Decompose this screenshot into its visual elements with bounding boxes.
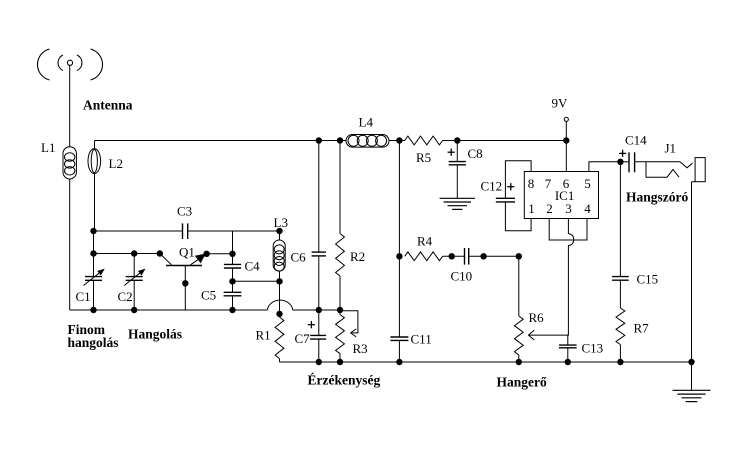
label Hangszoro — [626, 190, 688, 205]
capacitor C3 — [177, 204, 192, 240]
svg-text:Hangolás: Hangolás — [128, 327, 182, 342]
ground — [440, 198, 476, 209]
wire C3 bus to C4 — [232, 231, 234, 264]
node R3 bottom — [337, 359, 343, 365]
wire Q1 emitter to C4 node — [207, 253, 233, 255]
wire pin 1 loop — [505, 202, 531, 231]
wire C3 bus left — [94, 230, 183, 232]
inductor L4 — [346, 115, 389, 148]
capacitor C8 — [448, 141, 483, 165]
wire main bottom rail — [280, 361, 692, 363]
node C7 bottom — [316, 359, 322, 365]
resistor R1 — [256, 317, 284, 359]
node Q1 collector junction — [157, 250, 163, 256]
node C2 bottom — [131, 307, 137, 313]
capacitor C12 — [481, 179, 516, 202]
node L3 top — [276, 228, 282, 234]
svg-text:hangolás: hangolás — [68, 335, 119, 350]
svg-text:C3: C3 — [177, 204, 192, 219]
inductor L1 — [41, 140, 76, 179]
node C10 right — [480, 253, 486, 259]
label Finom hangolas — [68, 322, 119, 350]
node R6 bottom — [516, 359, 522, 365]
svg-text:4: 4 — [584, 201, 591, 216]
label Antenna — [83, 98, 133, 113]
svg-text:R3: R3 — [353, 341, 368, 356]
wire pin 2 to pin 4 — [549, 219, 587, 241]
wire C2 branch — [133, 254, 135, 277]
svg-text:C1: C1 — [76, 289, 91, 304]
wire L3 to R1 — [279, 271, 281, 317]
wire C6 to C7 — [318, 256, 320, 335]
wire top rail — [95, 140, 347, 142]
svg-text:C11: C11 — [411, 332, 432, 347]
node C2 top — [131, 250, 137, 256]
node ground junction — [688, 359, 694, 365]
svg-text:C12: C12 — [481, 179, 503, 194]
resistor R7 — [616, 308, 649, 345]
svg-text:5: 5 — [584, 176, 591, 191]
node 9V rail junction — [563, 137, 569, 143]
wire C15 to R7 — [619, 280, 621, 308]
svg-text:7: 7 — [545, 176, 552, 191]
node C4 bottom junction — [229, 278, 235, 284]
svg-text:J1: J1 — [665, 141, 677, 156]
capacitor C11 — [390, 332, 431, 347]
wire pin 8 loop — [505, 161, 531, 199]
wire R2 branch — [339, 141, 341, 234]
svg-text:C13: C13 — [582, 341, 604, 356]
wire tuning bus — [94, 253, 160, 255]
inductor L2 — [88, 149, 123, 174]
svg-text:C6: C6 — [291, 250, 307, 265]
resistor R4 — [405, 234, 443, 261]
svg-text:C7: C7 — [295, 331, 311, 346]
svg-text:L4: L4 — [359, 115, 374, 130]
wire R1 to rail — [279, 359, 281, 362]
svg-text:6: 6 — [563, 176, 570, 191]
node C6 top rail junction — [316, 137, 322, 143]
node R6 corner — [516, 253, 522, 259]
resistor R2 — [336, 234, 366, 277]
node R2 top rail junction — [337, 137, 343, 143]
svg-text:Hangerő: Hangerő — [497, 375, 547, 390]
wire R2 to node — [339, 276, 341, 310]
wire node to C14 — [620, 161, 629, 163]
wire C3 bus right — [188, 230, 280, 232]
svg-text:C14: C14 — [625, 133, 647, 148]
transistor Q1 — [160, 245, 207, 266]
wire L1 bottom to rail — [69, 179, 71, 310]
wire link to L3 bottom — [233, 280, 280, 282]
inductor L3 — [273, 215, 288, 271]
capacitor C13 — [559, 341, 603, 356]
wire pin 5 to C14 node — [589, 162, 621, 172]
capacitor C7 — [295, 321, 327, 346]
node Q1 emitter junction — [203, 251, 209, 257]
svg-text:2: 2 — [546, 201, 553, 216]
wire hop over R1 line — [267, 300, 292, 310]
node R4 junction — [396, 253, 402, 259]
svg-text:C4: C4 — [245, 259, 261, 274]
node C8 junction — [454, 137, 460, 143]
svg-text:Q1: Q1 — [179, 245, 195, 260]
wire R6 branch — [518, 256, 520, 316]
wire C7 to rail — [318, 339, 320, 362]
wire C14 node to C15 — [619, 162, 621, 277]
node L2 line / C3 bus — [90, 228, 96, 234]
svg-text:Antenna: Antenna — [83, 98, 133, 113]
resistor R6 — [514, 310, 544, 355]
wire L3 top stub — [279, 231, 281, 240]
wire C4 to C5 node — [232, 268, 234, 292]
svg-text:R7: R7 — [634, 321, 650, 336]
svg-text:C5: C5 — [201, 288, 216, 303]
label Hangolas — [128, 327, 182, 342]
svg-text:9V: 9V — [552, 96, 569, 111]
wire antenna lead — [69, 66, 71, 147]
svg-text:R4: R4 — [417, 234, 433, 249]
label Erzekenyseg — [308, 373, 381, 388]
node C11 bottom — [396, 359, 402, 365]
wire R3 to rail — [339, 354, 341, 362]
wire J1 to rail — [691, 182, 693, 362]
svg-text:C15: C15 — [637, 272, 659, 287]
ground — [673, 390, 711, 401]
op-amp IC1 — [524, 172, 598, 219]
wire C5 to rail — [232, 296, 234, 310]
node C6 line junction — [316, 307, 322, 313]
node C5 bottom — [229, 307, 235, 313]
capacitor C10 — [451, 248, 473, 284]
wiper arrow R6 — [528, 330, 567, 340]
wire L2 bottom line — [94, 174, 95, 277]
svg-text:L3: L3 — [274, 215, 288, 230]
svg-text:R5: R5 — [416, 150, 431, 165]
power 9V terminal — [552, 96, 569, 122]
node C14 junction — [617, 159, 623, 165]
wire to ground — [691, 362, 693, 390]
svg-text:L1: L1 — [41, 140, 55, 155]
node top rail / R4 branch — [396, 137, 402, 143]
svg-text:C2: C2 — [118, 289, 133, 304]
wire C1 to rail — [93, 280, 95, 310]
wire Q1 base lead — [184, 266, 186, 311]
node R1 top dot — [276, 311, 282, 317]
svg-text:C10: C10 — [451, 269, 473, 284]
resistor R5 — [405, 136, 443, 165]
wire 9V to IC pin 6 — [565, 121, 567, 171]
wire L4 to R5 — [389, 140, 405, 142]
wire R4 to C10 — [443, 255, 465, 257]
wire pin 3 with hop — [568, 219, 574, 346]
svg-text:R2: R2 — [350, 249, 365, 264]
node R7 bottom — [617, 359, 623, 365]
svg-text:R1: R1 — [256, 328, 271, 343]
wire C8 node to 9V line — [457, 140, 566, 142]
node Q1 base dot — [182, 280, 188, 286]
node C10 left — [449, 253, 455, 259]
wire R4 branch — [398, 141, 400, 337]
variable capacitor C2 — [118, 269, 146, 304]
svg-text:Érzékenység: Érzékenység — [308, 373, 381, 388]
capacitor C15 — [612, 272, 658, 287]
capacitor C4 — [224, 259, 260, 274]
wire C8 to ground — [456, 165, 458, 198]
node L3 bottom — [276, 278, 282, 284]
wire C10 to R6 corner — [469, 255, 519, 257]
wire tuning rail — [70, 309, 268, 311]
wire L2 top to top rail corner — [94, 141, 96, 150]
node C13 bottom — [565, 359, 571, 365]
svg-text:R6: R6 — [529, 310, 545, 325]
capacitor C14 — [619, 133, 647, 173]
node C4 top junction — [229, 251, 235, 257]
svg-text:1: 1 — [528, 201, 535, 216]
svg-text:3: 3 — [565, 201, 572, 216]
wire R3 top stub — [339, 310, 341, 315]
node L2 line / tuning bus — [90, 250, 96, 256]
jack J1 — [635, 141, 706, 182]
wire C13 to rail — [567, 348, 569, 362]
label Hangero — [497, 375, 547, 390]
node C1 bottom — [90, 307, 96, 313]
antenna — [37, 49, 102, 80]
wire C2 to rail — [133, 280, 135, 310]
wire tuning rail right — [293, 309, 340, 311]
svg-text:L2: L2 — [109, 156, 123, 171]
svg-text:Hangszóró: Hangszóró — [626, 190, 688, 205]
wire C11 to rail — [398, 340, 400, 362]
svg-text:8: 8 — [528, 176, 535, 191]
variable capacitor C1 — [76, 269, 105, 304]
wire C6 branch — [318, 141, 320, 253]
resistor R3 with wiper — [336, 311, 368, 356]
wire R5 to C8 node — [443, 140, 458, 142]
wire R6 to rail — [518, 355, 520, 362]
capacitor C6 — [291, 250, 327, 265]
capacitor C5 — [201, 288, 241, 303]
wire R7 to rail — [619, 345, 621, 363]
svg-text:C8: C8 — [468, 146, 483, 161]
node R2 bottom junction — [337, 307, 343, 313]
